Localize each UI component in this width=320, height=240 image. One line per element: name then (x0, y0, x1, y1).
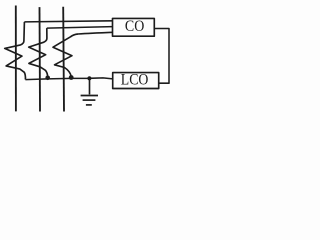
wire CT1 secondary top lead to CO (24, 21, 112, 22)
wire phase A line (15, 6, 17, 112)
wire CT2 secondary middle lead to CO (47, 27, 113, 29)
current transformer CT3 (zigzag winding on phase C) (53, 34, 78, 77)
svg-text:CO: CO (125, 16, 145, 35)
wire residual bus to LCO (25, 78, 112, 80)
wire phase C line (62, 7, 65, 112)
junction dot ground-bus (87, 76, 91, 80)
relay box CO (U1) (113, 18, 155, 36)
wire CO right terminal to LCO right terminal (series link) (154, 29, 169, 84)
current transformer CT2 (zigzag winding on phase B) (29, 28, 48, 77)
wire CT3 secondary bottom lead to CO (78, 32, 112, 34)
current transformer CT1 (zigzag winding on phase A) (5, 22, 26, 80)
junction dot CT3-bus (69, 75, 74, 80)
svg-text:LCO: LCO (121, 69, 149, 88)
ground symbol (81, 78, 98, 105)
wire phase B line (39, 7, 42, 111)
relay box LCO (U2) (113, 73, 159, 89)
junction dot CT2-bus (45, 76, 50, 81)
